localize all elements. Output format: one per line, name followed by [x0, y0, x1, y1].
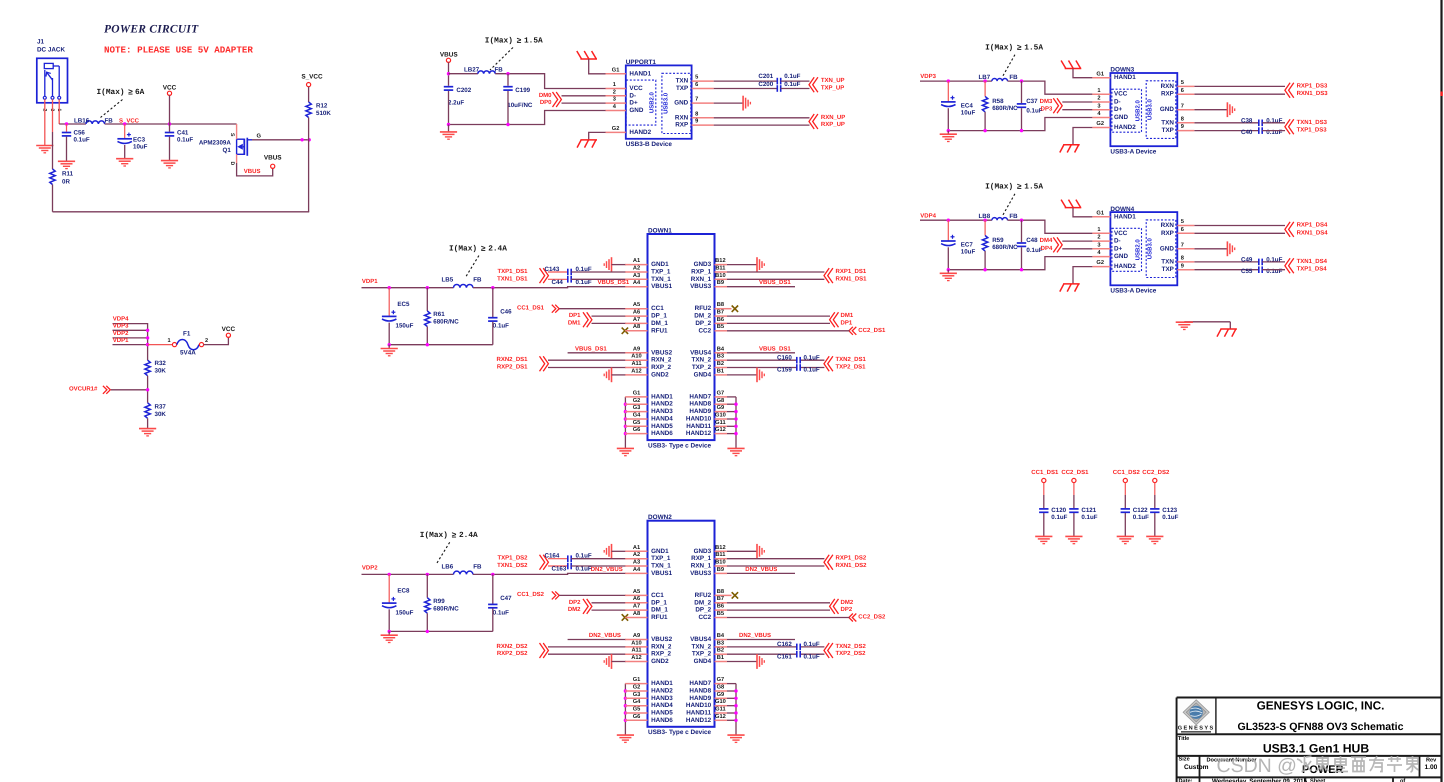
svg-text:680R/NC: 680R/NC [992, 244, 1018, 251]
svg-text:VBUS_DS1: VBUS_DS1 [598, 279, 630, 286]
svg-text:B6: B6 [717, 317, 724, 323]
svg-text:C200: C200 [758, 81, 773, 88]
port chevron TXN2 TXP2 pair [824, 643, 833, 658]
svg-text:RFU1: RFU1 [651, 327, 668, 334]
svg-text:CSDN @: CSDN @ [1217, 755, 1297, 777]
ground [1035, 536, 1052, 543]
svg-text:HAND3: HAND3 [651, 695, 673, 702]
svg-text:VDP4: VDP4 [920, 212, 936, 219]
port chevron CC1 [552, 305, 559, 313]
wire TXP pin9 to C40 [1194, 130, 1259, 132]
wire rail after FB [1008, 220, 1093, 233]
svg-text:0.1uF: 0.1uF [1051, 514, 1067, 521]
svg-text:I(Max): I(Max) [420, 531, 448, 540]
svg-text:FB: FB [473, 277, 482, 284]
svg-text:GND: GND [1160, 245, 1174, 252]
svg-text:RFU2: RFU2 [695, 305, 712, 312]
wire TXP pin6 to C200 [714, 88, 778, 90]
svg-text:G1: G1 [1096, 210, 1104, 216]
svg-text:HAND1: HAND1 [1114, 74, 1136, 81]
junction [947, 79, 950, 82]
svg-text:HAND4: HAND4 [651, 416, 673, 423]
resistor R58 680R/NC [984, 81, 986, 96]
svg-text:A3: A3 [633, 560, 640, 566]
wire B9 VBUS3 [727, 572, 795, 574]
svg-text:C160: C160 [777, 354, 792, 361]
wire B7 [727, 315, 830, 317]
svg-text:CC2_DS1: CC2_DS1 [858, 327, 886, 334]
port chevron CC1 [552, 591, 559, 599]
wire Q1 drain to VBUS [236, 154, 238, 163]
svg-text:GND: GND [1160, 106, 1174, 113]
pins left DOWN3 [1092, 71, 1110, 127]
capacitor C201 0.1uF series [777, 78, 780, 85]
pins left UPPORT1 [606, 67, 626, 132]
svg-text:TXP2_DS2: TXP2_DS2 [836, 650, 867, 657]
ground rotated B1 [727, 374, 757, 376]
resistor R59 680R/NC [984, 220, 986, 235]
svg-text:F1: F1 [183, 331, 191, 338]
wire B4 VBUS4 [727, 639, 795, 641]
inductor LB6 FB [454, 571, 473, 574]
ground rotated A12 [604, 368, 611, 383]
wire RXP2 to A11 [548, 367, 626, 369]
svg-text:CC1_DS1: CC1_DS1 [517, 304, 545, 311]
port chevron RXP1_DS4 RXN1_DS4 pair [1285, 222, 1294, 237]
svg-text:Wednesday, September 09, 2015: Wednesday, September 09, 2015 [1212, 778, 1308, 782]
wire VCC to rail [169, 95, 171, 124]
svg-text:DM2: DM2 [841, 599, 854, 606]
svg-text:5: 5 [1181, 80, 1184, 86]
svg-text:10uF/NC: 10uF/NC [507, 102, 533, 109]
svg-text:RXP1_DS4: RXP1_DS4 [1297, 222, 1328, 229]
svg-text:D-: D- [629, 92, 636, 99]
svg-text:DM4: DM4 [1040, 237, 1053, 244]
chassis ground G1 [1061, 61, 1081, 69]
svg-text:DP3: DP3 [1041, 106, 1053, 113]
svg-text:DP_2: DP_2 [695, 607, 711, 614]
svg-text:VDP3: VDP3 [920, 73, 936, 80]
wire VDP2 rail [362, 573, 454, 575]
junction [168, 122, 171, 125]
svg-text:LB5: LB5 [442, 277, 454, 284]
svg-text:1.5A: 1.5A [1024, 182, 1043, 191]
svg-text:2: 2 [1097, 235, 1100, 241]
wire VBUS2 A9 [568, 352, 626, 354]
ground [947, 270, 949, 273]
svg-text:B7: B7 [717, 596, 724, 602]
svg-text:5: 5 [1181, 219, 1184, 225]
svg-text:DM3: DM3 [1040, 98, 1053, 105]
wire RXN2 to A10 [548, 646, 626, 648]
wire DP2 to A6 [592, 602, 627, 604]
wire C41 to ground [169, 137, 171, 161]
svg-text:VBUS4: VBUS4 [690, 349, 711, 356]
svg-text:CC1_DS1: CC1_DS1 [1031, 469, 1059, 476]
svg-text:HAND2: HAND2 [651, 401, 673, 408]
port chevron DM0 DP0 pair [553, 92, 562, 107]
svg-text:TXP: TXP [1162, 127, 1174, 134]
svg-text:0.1uF: 0.1uF [1133, 514, 1149, 521]
wire G pin to bus [727, 433, 736, 435]
svg-text:I(Max): I(Max) [97, 88, 125, 97]
svg-text:DP_1: DP_1 [651, 313, 667, 320]
svg-text:VBUS2: VBUS2 [651, 349, 672, 356]
svg-text:C49: C49 [1241, 257, 1253, 264]
wire DP1 to A6 [592, 315, 627, 317]
junction [146, 343, 149, 346]
svg-text:B2: B2 [717, 361, 724, 367]
svg-text:RXN_1: RXN_1 [691, 276, 712, 283]
svg-text:B7: B7 [717, 310, 724, 316]
ground rotated A1 [604, 257, 611, 272]
svg-text:G2: G2 [633, 685, 641, 691]
connector J1 DC JACK [37, 39, 68, 103]
wire G pin to bus [727, 396, 736, 398]
svg-text:≥: ≥ [481, 245, 486, 254]
IC UPPORT1 [626, 59, 692, 148]
svg-text:CC2: CC2 [698, 327, 711, 334]
wire VBUS2 A9 [568, 639, 626, 641]
svg-text:G9: G9 [717, 405, 725, 411]
port chevron DP2 DM2 pair [583, 599, 592, 614]
wire CC1_DS1 to C120 [1043, 483, 1045, 495]
wire RXP pin9 to RXP_UP [714, 124, 810, 126]
capacitor C164 0.1uF series [568, 555, 571, 562]
port chevron RXP1 RXN1 pair [824, 268, 833, 283]
svg-text:HAND11: HAND11 [686, 710, 711, 717]
svg-text:B4: B4 [717, 346, 725, 352]
svg-text:7: 7 [1181, 103, 1184, 109]
svg-text:TXP_1: TXP_1 [651, 555, 671, 562]
watermark CSDN [1217, 755, 1297, 777]
svg-text:VBUS3: VBUS3 [690, 570, 711, 577]
svg-text:B11: B11 [715, 552, 725, 558]
svg-text:B8: B8 [717, 589, 724, 595]
svg-text:150uF: 150uF [396, 323, 414, 330]
junction [146, 329, 149, 332]
svg-text:Date:: Date: [1179, 778, 1193, 782]
svg-text:Rev: Rev [1426, 757, 1437, 763]
svg-text:GENESYS: GENESYS [1178, 725, 1215, 731]
svg-text:9: 9 [695, 119, 698, 125]
ground [727, 448, 744, 455]
chassis ground G1 [1061, 200, 1081, 208]
svg-text:VBUS: VBUS [244, 168, 261, 175]
junction [308, 138, 311, 141]
junction [506, 72, 509, 75]
port chevron TXP1 TXN1 pair [540, 555, 549, 570]
svg-text:≥: ≥ [452, 532, 457, 541]
svg-text:USB2.0: USB2.0 [649, 91, 656, 113]
wire G pin to bus [727, 705, 736, 707]
svg-text:DC JACK: DC JACK [37, 47, 65, 54]
wire A12 GND2 [612, 661, 627, 663]
junction [734, 689, 737, 692]
wire RXN2 to A10 [548, 359, 626, 361]
port chevron CC2 [849, 327, 856, 335]
wire A1 GND1 [612, 264, 627, 266]
svg-text:RXP1_DS3: RXP1_DS3 [1297, 82, 1328, 89]
svg-text:B3: B3 [717, 640, 724, 646]
svg-text:6A: 6A [135, 88, 145, 97]
wire C143 to A2 [571, 271, 626, 273]
svg-text:of: of [1400, 777, 1405, 782]
svg-text:POWER CIRCUIT: POWER CIRCUIT [104, 24, 199, 36]
capacitor C159 0.1uF series [797, 364, 800, 371]
junction [65, 122, 68, 125]
svg-text:TXN2_DS2: TXN2_DS2 [836, 643, 867, 650]
wire VDP1 rail [362, 287, 454, 289]
wire B5 CC2 [727, 617, 850, 619]
svg-text:DN2_VBUS: DN2_VBUS [745, 566, 777, 573]
wire B6 [727, 322, 830, 324]
junction [947, 219, 950, 222]
svg-text:DP_2: DP_2 [695, 320, 711, 327]
svg-text:C40: C40 [1241, 129, 1253, 136]
svg-text:C48: C48 [1026, 237, 1038, 244]
wire GND rail [948, 118, 1092, 131]
capacitor C202 2.2uF [448, 75, 450, 85]
svg-text:TXN1_DS2: TXN1_DS2 [497, 562, 528, 569]
wire S_VCC to R12 [308, 87, 310, 102]
svg-text:A1: A1 [633, 258, 640, 264]
svg-text:C37: C37 [1026, 98, 1038, 105]
svg-text:EC7: EC7 [961, 242, 974, 249]
svg-text:HAND10: HAND10 [686, 416, 712, 423]
capacitor EC5 150uF electrolytic [388, 288, 390, 317]
svg-text:VDP4: VDP4 [113, 316, 129, 323]
junction [947, 268, 950, 271]
svg-text:HAND9: HAND9 [689, 408, 711, 415]
svg-text:RXN_1: RXN_1 [691, 563, 712, 570]
svg-text:A4: A4 [633, 567, 641, 573]
svg-text:1: 1 [1097, 227, 1100, 233]
wire G pin to bus [727, 411, 736, 413]
port chevron DM3 DP3 pair [1053, 98, 1062, 113]
svg-text:B1: B1 [717, 368, 724, 374]
svg-text:C47: C47 [500, 595, 512, 602]
wire Q1 gate to S_VCC node [252, 139, 309, 141]
svg-text:C122: C122 [1133, 507, 1148, 514]
ground [617, 448, 634, 455]
junction [734, 432, 737, 435]
wire TXN1 to C163 [548, 565, 568, 567]
svg-text:DP4: DP4 [1041, 245, 1053, 252]
svg-text:G10: G10 [715, 413, 726, 419]
wire DM0 to pin2 [562, 95, 606, 97]
svg-text:DM_1: DM_1 [651, 607, 668, 614]
svg-text:LB16: LB16 [74, 118, 90, 125]
IC DOWN2 [648, 514, 715, 736]
svg-text:TXP: TXP [1162, 266, 1174, 273]
ground [139, 429, 156, 436]
chassis ground G2 [1073, 128, 1092, 145]
svg-text:TXP1_DS4: TXP1_DS4 [1297, 266, 1328, 273]
svg-text:A4: A4 [633, 280, 641, 286]
wire VBUS down [448, 62, 450, 73]
junction [983, 219, 986, 222]
svg-text:C162: C162 [777, 641, 792, 648]
ground [36, 146, 53, 153]
capacitor C160 0.1uF series [797, 357, 800, 364]
junction [734, 417, 737, 420]
svg-text:RXP1_DS2: RXP1_DS2 [836, 555, 867, 562]
svg-text:G5: G5 [633, 707, 641, 713]
fuse F1 5V4A [167, 331, 208, 357]
svg-text:C41: C41 [177, 130, 189, 137]
svg-text:G1: G1 [633, 677, 641, 683]
capacitor C143 0.1uF series [568, 269, 571, 276]
svg-text:GND4: GND4 [694, 371, 712, 378]
svg-text:1.5A: 1.5A [524, 36, 543, 45]
port chevron DP1 DM1 pair [583, 312, 592, 327]
svg-text:OVCUR1#: OVCUR1# [69, 386, 98, 393]
wire GND rail under caps [449, 111, 606, 125]
svg-text:C46: C46 [500, 308, 512, 315]
svg-text:EC3: EC3 [133, 137, 146, 144]
capacitor C49 0.1uF series [1259, 259, 1262, 266]
svg-text:C143: C143 [545, 266, 560, 273]
svg-text:GND4: GND4 [694, 658, 712, 665]
wire C44 to A3 [571, 278, 626, 280]
svg-text:S: S [229, 133, 235, 137]
svg-text:CC1: CC1 [651, 592, 664, 599]
svg-text:RXP2_DS2: RXP2_DS2 [497, 650, 528, 657]
svg-text:0.1uF: 0.1uF [784, 81, 800, 88]
wire rail after FB [1008, 81, 1093, 94]
wire DP4 to pin3 [1062, 248, 1092, 250]
wire G pin to bus [727, 683, 736, 685]
svg-text:RXP_2: RXP_2 [651, 364, 671, 371]
wire fuse to VCC [204, 337, 229, 344]
svg-text:B11: B11 [715, 266, 725, 272]
svg-text:DP0: DP0 [540, 99, 552, 106]
wire GND pin7 to ground [1194, 248, 1227, 250]
inductor LB7 FB [992, 78, 1008, 81]
svg-text:A11: A11 [631, 648, 641, 654]
svg-text:DN2_VBUS: DN2_VBUS [591, 566, 623, 573]
svg-text:≥: ≥ [1017, 183, 1022, 192]
svg-text:RXP: RXP [675, 122, 688, 129]
port chevron RXP1_DS3 RXN1_DS3 pair [1285, 83, 1294, 98]
wire B2 [727, 367, 797, 369]
svg-text:TXP1_DS3: TXP1_DS3 [1297, 127, 1328, 134]
wire R37 to ground [147, 418, 149, 428]
svg-text:A10: A10 [631, 354, 641, 360]
svg-text:2: 2 [1097, 96, 1100, 102]
svg-text:2.4A: 2.4A [459, 531, 478, 540]
svg-text:HAND1: HAND1 [651, 680, 673, 687]
svg-text:R61: R61 [433, 311, 445, 318]
capacitor C55 0.1uF series [1259, 266, 1262, 273]
pins right DOWN2 [715, 545, 728, 721]
svg-text:HAND1: HAND1 [651, 393, 673, 400]
wire CC1 to A5 [559, 308, 626, 310]
junction [734, 425, 737, 428]
svg-text:B8: B8 [717, 302, 724, 308]
svg-text:B9: B9 [717, 567, 724, 573]
svg-text:TXP2_DS1: TXP2_DS1 [836, 364, 867, 371]
wire VDP4 [113, 324, 148, 361]
wire GND pin7 to ground [1194, 109, 1227, 111]
wire DM1 to A7 [592, 322, 627, 324]
svg-text:0.1uF: 0.1uF [177, 137, 193, 144]
junction [983, 79, 986, 82]
junction [146, 388, 149, 391]
junction [388, 573, 391, 576]
svg-text:G6: G6 [633, 714, 641, 720]
junction [734, 711, 737, 714]
svg-text:C121: C121 [1081, 507, 1096, 514]
svg-text:680R/NC: 680R/NC [992, 105, 1018, 112]
junction [624, 425, 627, 428]
svg-text:DP_1: DP_1 [651, 599, 667, 606]
resistor R12 510K [306, 102, 311, 118]
svg-text:RXP: RXP [1161, 230, 1174, 237]
wire bottom rail [53, 211, 310, 213]
svg-text:Sheet: Sheet [1310, 777, 1325, 782]
pins left DOWN4 [1092, 210, 1110, 266]
wire GND pin7 to ground [714, 102, 743, 104]
wire RXP pin6 to RXN1_DS4 [1194, 232, 1285, 234]
svg-text:VBUS_DS1: VBUS_DS1 [759, 279, 791, 286]
svg-text:TXN1_DS4: TXN1_DS4 [1297, 258, 1328, 265]
svg-text:CC2_DS2: CC2_DS2 [858, 614, 886, 621]
svg-text:A7: A7 [633, 317, 640, 323]
capacitor C48 0.1uF [1021, 220, 1023, 242]
svg-text:HAND12: HAND12 [686, 430, 712, 437]
svg-text:GND2: GND2 [651, 658, 669, 665]
wire G pin to bus [727, 403, 736, 405]
wire B10 RXN1 [727, 278, 824, 280]
svg-text:TXN: TXN [1161, 119, 1174, 126]
capacitor C37 0.1uF [1021, 81, 1023, 103]
junction [734, 403, 737, 406]
svg-text:RXN1_DS2: RXN1_DS2 [836, 562, 868, 569]
wire G pin to bus [727, 697, 736, 699]
svg-text:Custom: Custom [1184, 764, 1209, 771]
svg-text:EC4: EC4 [961, 103, 974, 110]
wire VDP1 [113, 344, 148, 346]
wire TXN pin8 to C38 [1194, 122, 1259, 124]
svg-text:EC5: EC5 [397, 301, 410, 308]
svg-text:A1: A1 [633, 545, 640, 551]
wire C121 to ground [1073, 513, 1075, 536]
svg-text:DN2_VBUS: DN2_VBUS [589, 632, 621, 639]
svg-text:680R/NC: 680R/NC [433, 319, 459, 326]
ground [947, 131, 949, 134]
svg-text:6: 6 [695, 82, 698, 88]
svg-text:G11: G11 [715, 420, 725, 426]
wire TXP pin9 to C55 [1194, 269, 1259, 271]
svg-text:EC8: EC8 [397, 588, 410, 595]
wire RXN pin5 to RXP1_DS4 [1194, 225, 1285, 227]
svg-text:510K: 510K [316, 110, 331, 117]
svg-text:D-: D- [1114, 99, 1121, 106]
svg-text:USB3.1 Gen1 HUB: USB3.1 Gen1 HUB [1263, 741, 1370, 755]
svg-text:VBUS4: VBUS4 [690, 636, 711, 643]
svg-text:G9: G9 [717, 692, 725, 698]
wire bus to fuse [148, 344, 173, 346]
svg-text:C38: C38 [1241, 118, 1253, 125]
svg-text:USB2.0: USB2.0 [1134, 239, 1141, 261]
svg-text:DN2_VBUS: DN2_VBUS [739, 632, 771, 639]
svg-text:VDP3: VDP3 [113, 323, 129, 330]
svg-text:GENESYS LOGIC, INC.: GENESYS LOGIC, INC. [1257, 699, 1385, 713]
capacitor EC7 10uF electrolytic [947, 220, 949, 240]
watermark hanzi strokes [1297, 756, 1419, 772]
